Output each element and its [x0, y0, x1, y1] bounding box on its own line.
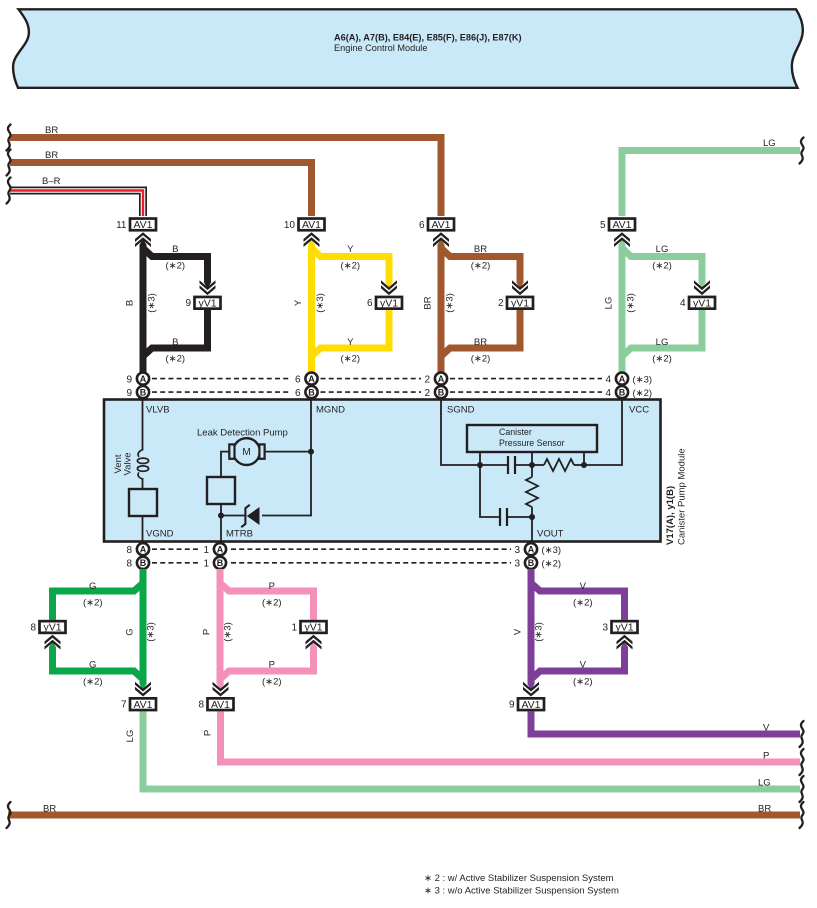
- svg-text:B: B: [140, 558, 147, 568]
- svg-text:MTRB: MTRB: [226, 529, 253, 540]
- svg-text:B: B: [438, 387, 445, 397]
- svg-text:(∗2): (∗2): [542, 559, 562, 570]
- svg-text:(∗2): (∗2): [471, 261, 491, 272]
- svg-text:yV1: yV1: [43, 622, 61, 634]
- svg-text:(∗2): (∗2): [165, 261, 185, 272]
- svg-text:V: V: [513, 628, 524, 635]
- svg-text:SGND: SGND: [447, 405, 475, 416]
- svg-text:B: B: [172, 244, 178, 255]
- svg-text:BR: BR: [474, 337, 487, 348]
- svg-text:(∗2): (∗2): [573, 598, 593, 609]
- svg-text:V: V: [763, 723, 770, 734]
- svg-text:P: P: [269, 581, 275, 592]
- svg-text:A6(A), A7(B), E84(E), E85(F),: A6(A), A7(B), E84(E), E85(F), E86(J), E8…: [334, 32, 522, 42]
- svg-text:BR: BR: [45, 150, 58, 161]
- svg-text:4: 4: [605, 374, 611, 385]
- svg-text:(∗2): (∗2): [471, 354, 491, 365]
- svg-text:A: A: [140, 374, 147, 384]
- svg-text:(∗3): (∗3): [315, 293, 326, 313]
- svg-text:(∗3): (∗3): [445, 293, 456, 313]
- svg-text:(∗2): (∗2): [262, 677, 282, 688]
- svg-text:(∗2): (∗2): [83, 677, 103, 688]
- svg-text:MGND: MGND: [316, 405, 345, 416]
- svg-text:3: 3: [514, 559, 520, 570]
- svg-text:2: 2: [424, 374, 430, 385]
- svg-text:AV1: AV1: [133, 219, 152, 231]
- svg-text:Y: Y: [347, 244, 354, 255]
- svg-text:(∗3): (∗3): [534, 622, 545, 642]
- svg-text:4: 4: [680, 298, 686, 309]
- svg-text:(∗3): (∗3): [542, 545, 562, 556]
- svg-text:G: G: [89, 660, 96, 671]
- svg-text:9: 9: [185, 298, 191, 309]
- svg-text:9: 9: [126, 388, 132, 399]
- svg-text:B: B: [125, 300, 136, 306]
- svg-text:B: B: [172, 337, 178, 348]
- svg-text:Y: Y: [347, 337, 354, 348]
- svg-text:(∗2): (∗2): [262, 598, 282, 609]
- svg-text:(∗2): (∗2): [165, 354, 185, 365]
- svg-text:Engine Control Module: Engine Control Module: [334, 43, 427, 53]
- svg-text:(∗3): (∗3): [223, 622, 234, 642]
- svg-text:(∗3): (∗3): [146, 622, 157, 642]
- svg-text:VGND: VGND: [146, 529, 174, 540]
- svg-text:A: A: [438, 374, 445, 384]
- svg-text:1: 1: [203, 545, 209, 556]
- svg-text:A: A: [619, 374, 626, 384]
- svg-text:V17(A), y1(B): V17(A), y1(B): [665, 486, 676, 545]
- svg-text:LG: LG: [758, 778, 771, 789]
- svg-text:M: M: [242, 447, 250, 458]
- svg-text:AV1: AV1: [302, 219, 321, 231]
- svg-text:yV1: yV1: [198, 297, 216, 309]
- svg-text:yV1: yV1: [304, 622, 322, 634]
- svg-text:6: 6: [419, 220, 425, 231]
- svg-text:8: 8: [198, 700, 204, 711]
- svg-text:P: P: [763, 751, 769, 762]
- svg-text:A: A: [140, 544, 147, 554]
- svg-text:8: 8: [30, 622, 36, 633]
- svg-text:AV1: AV1: [211, 699, 230, 711]
- svg-text:6: 6: [367, 298, 373, 309]
- svg-text:7: 7: [121, 700, 127, 711]
- svg-text:B: B: [528, 558, 535, 568]
- svg-text:3: 3: [514, 545, 520, 556]
- svg-text:1: 1: [203, 559, 209, 570]
- svg-text:(∗3): (∗3): [633, 374, 653, 385]
- svg-text:yV1: yV1: [380, 297, 398, 309]
- svg-text:yV1: yV1: [615, 622, 633, 634]
- svg-text:(∗2): (∗2): [573, 677, 593, 688]
- svg-text:yV1: yV1: [511, 297, 529, 309]
- svg-text:(∗3): (∗3): [147, 293, 158, 313]
- svg-text:BR: BR: [474, 244, 487, 255]
- svg-text:9: 9: [509, 700, 515, 711]
- svg-text:BR: BR: [758, 804, 771, 815]
- svg-text:LG: LG: [763, 138, 776, 149]
- svg-text:Valve: Valve: [123, 452, 134, 475]
- svg-text:2: 2: [498, 298, 504, 309]
- svg-text:B: B: [308, 387, 315, 397]
- svg-text:A: A: [217, 544, 224, 554]
- svg-text:Pressure Sensor: Pressure Sensor: [499, 438, 565, 448]
- svg-text:P: P: [202, 629, 213, 635]
- svg-text:6: 6: [295, 374, 301, 385]
- svg-text:(∗2): (∗2): [633, 388, 653, 399]
- svg-text:LG: LG: [604, 297, 615, 310]
- svg-text:Y: Y: [293, 299, 304, 306]
- svg-text:VCC: VCC: [629, 405, 649, 416]
- svg-text:VOUT: VOUT: [537, 529, 564, 540]
- svg-text:V: V: [580, 581, 587, 592]
- svg-text:Canister Pump Module: Canister Pump Module: [677, 448, 688, 545]
- svg-text:B–R: B–R: [42, 176, 61, 187]
- svg-text:G: G: [89, 581, 96, 592]
- svg-text:8: 8: [126, 559, 132, 570]
- svg-text:BR: BR: [43, 804, 56, 815]
- svg-text:2: 2: [424, 388, 430, 399]
- svg-text:A: A: [308, 374, 315, 384]
- svg-text:(∗2): (∗2): [652, 261, 672, 272]
- svg-text:A: A: [528, 544, 535, 554]
- svg-text:(∗2): (∗2): [652, 354, 672, 365]
- svg-text:yV1: yV1: [693, 297, 711, 309]
- svg-text:8: 8: [126, 545, 132, 556]
- svg-text:5: 5: [600, 220, 606, 231]
- svg-text:(∗3): (∗3): [626, 293, 637, 313]
- svg-text:Leak Detection Pump: Leak Detection Pump: [197, 428, 288, 439]
- svg-text:B: B: [217, 558, 224, 568]
- svg-text:(∗2): (∗2): [340, 261, 360, 272]
- svg-text:(∗2): (∗2): [340, 354, 360, 365]
- svg-text:B: B: [619, 387, 626, 397]
- svg-text:Canister: Canister: [499, 427, 532, 437]
- svg-text:AV1: AV1: [612, 219, 631, 231]
- svg-text:LG: LG: [125, 730, 136, 743]
- svg-text:∗ 2 : w/ Active Stabilizer Sus: ∗ 2 : w/ Active Stabilizer Suspension Sy…: [424, 873, 614, 884]
- svg-text:LG: LG: [656, 337, 669, 348]
- svg-text:3: 3: [602, 622, 608, 633]
- svg-text:G: G: [125, 628, 136, 635]
- svg-text:AV1: AV1: [431, 219, 450, 231]
- svg-text:BR: BR: [423, 296, 434, 309]
- svg-text:LG: LG: [656, 244, 669, 255]
- svg-text:B: B: [140, 387, 147, 397]
- svg-text:11: 11: [116, 220, 127, 231]
- svg-text:P: P: [269, 660, 275, 671]
- svg-text:AV1: AV1: [133, 699, 152, 711]
- svg-text:∗ 3 : w/o Active Stabilizer Su: ∗ 3 : w/o Active Stabilizer Suspension S…: [424, 886, 619, 897]
- svg-text:V: V: [580, 660, 587, 671]
- svg-text:(∗2): (∗2): [83, 598, 103, 609]
- svg-text:1: 1: [291, 622, 297, 633]
- svg-text:P: P: [203, 730, 214, 736]
- svg-text:4: 4: [605, 388, 611, 399]
- svg-text:AV1: AV1: [521, 699, 540, 711]
- svg-text:VLVB: VLVB: [146, 405, 170, 416]
- svg-text:9: 9: [126, 374, 132, 385]
- svg-text:10: 10: [284, 220, 296, 231]
- svg-text:6: 6: [295, 388, 301, 399]
- svg-text:BR: BR: [45, 125, 58, 136]
